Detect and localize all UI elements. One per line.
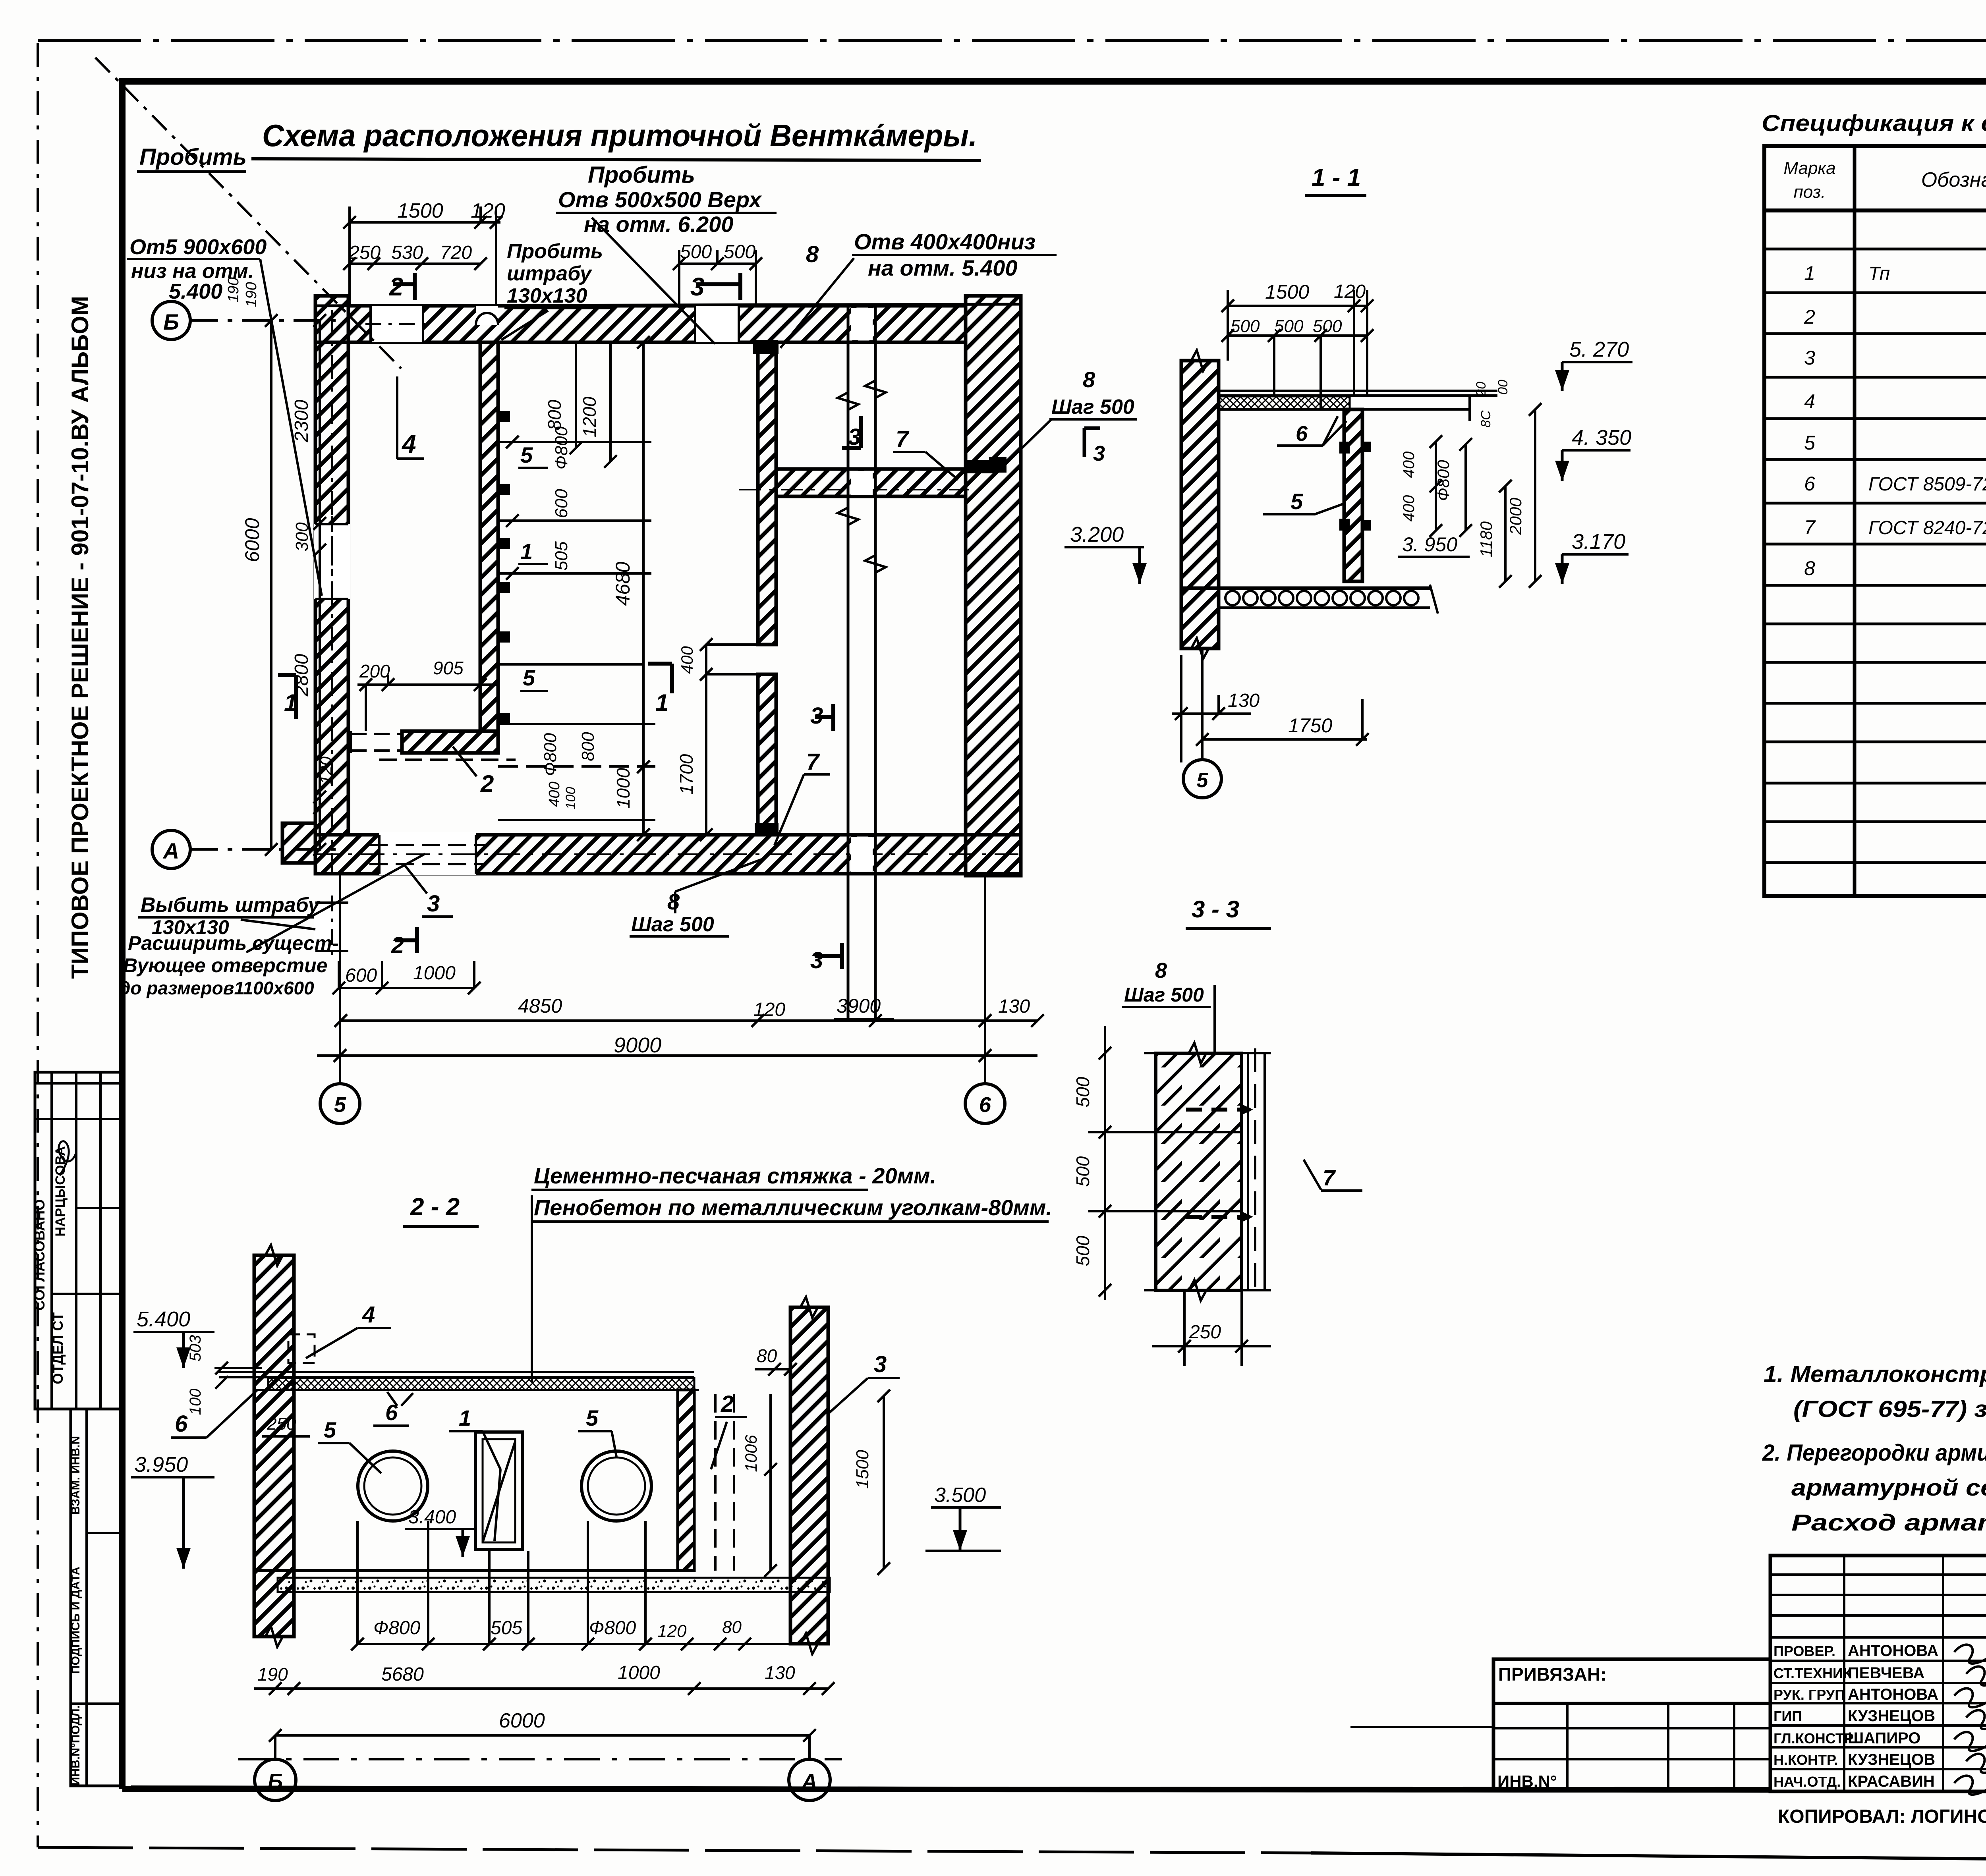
label vybit shtrabu [138, 894, 321, 938]
svg-text:720: 720 [440, 242, 472, 263]
svg-text:800: 800 [544, 400, 565, 430]
s11 level 5.270 [1555, 338, 1632, 391]
plan left wall lower opening (shtraba) [314, 896, 350, 957]
plan top wall band [315, 296, 1021, 342]
svg-text:500: 500 [724, 241, 755, 262]
section mark 3 top [690, 272, 740, 301]
svg-text:3: 3 [874, 1351, 887, 1377]
svg-text:190: 190 [243, 282, 260, 307]
s11 dim 130 [1172, 655, 1260, 762]
section mark 1 mid [648, 664, 672, 716]
svg-text:6: 6 [175, 1411, 188, 1437]
svg-text:1180: 1180 [1477, 521, 1495, 557]
dim 400 1700 [676, 638, 771, 841]
svg-text:1000: 1000 [413, 963, 456, 984]
svg-text:Ф800: Ф800 [589, 1617, 636, 1639]
svg-text:1500: 1500 [397, 199, 443, 222]
svg-text:5: 5 [520, 442, 533, 467]
s22 top slab [219, 1372, 699, 1390]
svg-text:3.200: 3.200 [1070, 523, 1124, 546]
s11 dims 400 400 F800 [1400, 435, 1472, 537]
svg-text:Пробить: Пробить [588, 162, 695, 188]
s33 dim 500x3 [1072, 1026, 1242, 1300]
svg-text:Обозначение: Обозначение [1921, 168, 1986, 191]
svg-text:500: 500 [1231, 317, 1260, 336]
svg-text:5.400: 5.400 [169, 280, 222, 303]
svg-text:ГОСТ 8509-72: ГОСТ 8509-72 [1868, 474, 1986, 495]
svg-text:Спецификация к схеме расположе: Спецификация к схеме расположения приточ… [1762, 110, 1986, 136]
svg-text:190: 190 [257, 1664, 288, 1685]
svg-text:От5 900х600: От5 900х600 [129, 235, 267, 259]
s11 level 3.170 [1555, 530, 1629, 584]
svg-text:6000: 6000 [499, 1709, 545, 1732]
s22 right outer wall [790, 1297, 828, 1654]
svg-text:3 - 3: 3 - 3 [1192, 896, 1239, 923]
svg-text:7: 7 [806, 749, 820, 775]
svg-text:190: 190 [225, 277, 242, 302]
s22 level 3.950 [131, 1453, 214, 1569]
plan left wall [315, 342, 348, 835]
svg-text:ВЗАМ. ИНВ.N: ВЗАМ. ИНВ.N [69, 1436, 82, 1515]
svg-text:Выбить штрабу: Выбить штрабу [141, 894, 321, 917]
svg-text:400: 400 [678, 646, 696, 674]
svg-text:8: 8 [1083, 367, 1095, 392]
svg-text:3: 3 [810, 948, 823, 973]
svg-text:3: 3 [690, 272, 705, 301]
svg-text:АНТОНОВА: АНТОНОВА [1848, 1642, 1938, 1660]
svg-text:ИНВ.N°ПОДЛ.: ИНВ.N°ПОДЛ. [69, 1705, 82, 1785]
svg-text:80: 80 [757, 1345, 777, 1366]
svg-text:300: 300 [292, 522, 312, 552]
section 1-1 title [1305, 164, 1366, 195]
sidebar vertical project label [67, 296, 93, 979]
spec table contents [1804, 223, 1986, 621]
svg-text:2: 2 [389, 272, 404, 301]
s33 dim 250 [1152, 1290, 1271, 1366]
s22 axis line [238, 1758, 842, 1760]
s22 label 5 first [318, 1417, 381, 1473]
plan partition room4 embeds [498, 411, 510, 724]
svg-text:3900: 3900 [837, 995, 881, 1017]
svg-text:Схема расположения приточной: Схема расположения приточной Вентка́меры… [262, 118, 977, 153]
s11 label 5 [1263, 489, 1344, 514]
svg-text:503: 503 [187, 1335, 204, 1362]
svg-text:3: 3 [1804, 347, 1815, 369]
s22 level 3.500 [925, 1484, 1001, 1551]
svg-text:НАЧ.ОТД.: НАЧ.ОТД. [1773, 1774, 1841, 1790]
svg-text:5: 5 [1804, 432, 1815, 454]
svg-text:1750: 1750 [1288, 714, 1332, 737]
notes text [1762, 1361, 1986, 1536]
svg-text:505: 505 [491, 1617, 522, 1639]
svg-text:6: 6 [1804, 473, 1815, 495]
s33 label 8 shag 500 [1122, 959, 1215, 1053]
s11 level 4.350 [1555, 426, 1631, 481]
svg-text:5: 5 [334, 1093, 346, 1117]
svg-text:Цементно-песчаная стяжка - 20м: Цементно-песчаная стяжка - 20мм. [534, 1163, 936, 1188]
svg-text:на отм. 5.400: на отм. 5.400 [868, 255, 1017, 280]
svg-text:1. Металлоконструкции окрасить: 1. Металлоконструкции окрасить масляной … [1764, 1361, 1986, 1387]
svg-text:ОТДЕЛ СТ: ОТДЕЛ СТ [50, 1312, 66, 1384]
svg-text:400: 400 [1400, 452, 1418, 478]
svg-text:3.500: 3.500 [934, 1484, 986, 1507]
label 4 room [397, 376, 424, 459]
svg-text:120: 120 [1334, 281, 1366, 302]
svg-text:штрабу: штрабу [507, 262, 593, 285]
svg-text:5: 5 [324, 1417, 336, 1442]
s11 left wall [1181, 350, 1219, 659]
dim 6000 left [241, 314, 278, 856]
s22 circle opening 1 [357, 1451, 428, 1521]
svg-text:7: 7 [1323, 1165, 1336, 1190]
svg-text:400: 400 [1400, 495, 1418, 522]
svg-text:ГЛ.КОНСТР: ГЛ.КОНСТР [1773, 1730, 1854, 1747]
plan partition room4 horizontal [351, 731, 516, 760]
svg-text:Отв 500х500 Верх: Отв 500х500 Верх [558, 187, 763, 212]
s22 note styazhka [531, 1163, 1052, 1382]
frame bottom extension [131, 1788, 1493, 1790]
svg-text:5: 5 [1197, 769, 1209, 792]
svg-text:2: 2 [721, 1391, 734, 1417]
svg-text:250: 250 [1189, 1322, 1221, 1343]
label Otv 400x400 niz na otm 5.400 [780, 229, 1057, 348]
plan bottom wall band [315, 835, 1021, 874]
svg-text:5: 5 [523, 665, 535, 690]
svg-text:500: 500 [1313, 317, 1342, 336]
s22 label 2 [711, 1391, 747, 1469]
svg-text:Вующее отверстие: Вующее отверстие [123, 954, 327, 977]
svg-text:4850: 4850 [518, 995, 562, 1017]
section mark 2 bottom [391, 927, 417, 958]
s11 dim 1500 120 [1221, 281, 1374, 396]
plan top wall embed 7 (black) [753, 340, 778, 354]
svg-text:Марка: Марка [1783, 158, 1835, 178]
s22 dims row2 [254, 1662, 835, 1695]
privyazan table [1493, 1659, 1770, 1790]
svg-text:Шаг 500: Шаг 500 [1051, 396, 1134, 419]
main title [251, 118, 981, 160]
s22 dim 1500 [853, 1390, 890, 1575]
axis 6 circle plan [965, 874, 1005, 1123]
sidebar lower table (Инв/Подпись/Взам) [71, 1409, 122, 1786]
svg-text:500: 500 [1072, 1235, 1093, 1266]
section 3-3 title [1186, 896, 1271, 928]
signature table names [1773, 1642, 1938, 1790]
plan shaft line right [865, 306, 886, 1021]
svg-text:(ГОСТ 695-77) за 2 раза.: (ГОСТ 695-77) за 2 раза. [1793, 1396, 1986, 1422]
svg-text:2: 2 [1804, 306, 1815, 328]
svg-text:4. 350: 4. 350 [1572, 426, 1631, 450]
svg-text:1000: 1000 [618, 1662, 660, 1683]
dim 1500/120 above plan [343, 199, 505, 306]
svg-text:400: 400 [546, 782, 563, 807]
s11 top slab [1219, 391, 1497, 421]
s22 dim 1006 [742, 1394, 777, 1577]
svg-text:500: 500 [1072, 1077, 1093, 1107]
svg-text:ПОДПИСЬ И ДАТА: ПОДПИСЬ И ДАТА [69, 1567, 82, 1674]
s22 center opening [475, 1432, 522, 1550]
sidebar label Взам инв [69, 1436, 82, 1515]
svg-text:ПРОВЕР.: ПРОВЕР. [1773, 1643, 1835, 1659]
svg-text:СОГЛАСОВАНО: СОГЛАСОВАНО [31, 1199, 48, 1310]
section mark 1 left [278, 675, 297, 719]
spec table grid [1764, 146, 1986, 896]
svg-text:3. 950: 3. 950 [1402, 533, 1457, 556]
s11 dim 500x3 [1221, 317, 1374, 409]
sidebar label Нарцысова [53, 1146, 68, 1236]
label 8 shag500 bottom [630, 858, 766, 936]
section mark 3 lower [810, 943, 842, 973]
svg-text:Н.КОНТР.: Н.КОНТР. [1773, 1752, 1838, 1768]
section mark 3 right [1084, 428, 1105, 465]
svg-text:5: 5 [1291, 489, 1303, 514]
svg-text:8: 8 [1155, 959, 1167, 982]
svg-text:8: 8 [806, 241, 819, 267]
section 2-2 title [403, 1193, 479, 1226]
label 2 partition [453, 747, 494, 797]
s22 dim 6000 [269, 1709, 816, 1742]
plan right-room horizontal wall [739, 469, 969, 496]
s22 level 5.400 [133, 1307, 262, 1415]
svg-text:7: 7 [1804, 516, 1816, 538]
label 5 lower [520, 665, 548, 691]
svg-text:130х130: 130х130 [507, 284, 587, 307]
plan shaft line left [838, 306, 858, 1021]
svg-text:20: 20 [1474, 382, 1489, 397]
plan top wall opening (probit) [365, 306, 429, 342]
plan top wall opening 500x500 [695, 306, 739, 342]
plan left wall centerline [331, 310, 333, 872]
svg-text:250: 250 [267, 1414, 296, 1434]
svg-text:600: 600 [552, 489, 571, 518]
svg-text:КРАСАВИН: КРАСАВИН [1848, 1773, 1935, 1790]
svg-text:800: 800 [578, 732, 598, 761]
svg-text:2 - 2: 2 - 2 [410, 1193, 460, 1221]
s22 circle opening 2 [581, 1451, 651, 1521]
label 5 upper [518, 442, 548, 468]
svg-text:Тп: Тп [1868, 263, 1890, 284]
svg-text:2300: 2300 [291, 400, 312, 442]
s11 floor slab [1181, 585, 1438, 614]
svg-text:1: 1 [1804, 262, 1815, 284]
label 7 upper-right [893, 426, 958, 480]
signature table grid [1770, 1556, 1986, 1791]
plan partition room4 vertical [480, 342, 498, 731]
signature squiggles [1954, 1644, 1986, 1795]
s11 level 3.950 [1398, 533, 1470, 557]
svg-text:120: 120 [657, 1621, 687, 1641]
svg-text:8: 8 [667, 889, 680, 914]
svg-text:2. Перегородки армировать чере: 2. Перегородки армировать через 6 рядов … [1762, 1440, 1986, 1466]
label Probit (top-left) [95, 58, 401, 369]
dim 250 530 720 [343, 242, 487, 270]
svg-text:1500: 1500 [853, 1450, 872, 1489]
label Ot5 900x600 [127, 235, 322, 596]
svg-text:НАРЦЫСОВА: НАРЦЫСОВА [53, 1146, 68, 1236]
axis B circle [152, 301, 348, 340]
svg-text:ПРИВЯЗАН:: ПРИВЯЗАН: [1498, 1664, 1607, 1685]
svg-text:120: 120 [753, 999, 785, 1020]
plan bottom band centerline [315, 853, 1021, 855]
svg-text:500: 500 [1274, 317, 1304, 336]
section mark 3 mid [810, 703, 833, 731]
svg-text:Б: Б [163, 309, 179, 334]
svg-text:ИНВ.N°: ИНВ.N° [1497, 1772, 1557, 1791]
svg-text:5.400: 5.400 [137, 1307, 190, 1331]
svg-text:4: 4 [362, 1302, 375, 1328]
s22 floor [254, 1571, 830, 1592]
svg-text:6000: 6000 [241, 518, 263, 562]
dim 500 500 (otv) [673, 241, 762, 306]
s22 label 1 [449, 1405, 500, 1541]
svg-text:ПЕВЧЕВА: ПЕВЧЕВА [1848, 1664, 1924, 1682]
sidebar label Согласовано [31, 1199, 48, 1310]
plan top wall shtraba notch [476, 306, 498, 325]
section mark 3 pair upper [842, 416, 861, 450]
sidebar label Отдел СТ [50, 1312, 66, 1384]
s33 wall [1156, 1043, 1242, 1301]
svg-text:80: 80 [722, 1617, 742, 1637]
svg-text:905: 905 [433, 658, 464, 678]
s22 dashed partition [715, 1394, 734, 1571]
svg-text:100: 100 [187, 1389, 204, 1415]
spec table header [1783, 158, 1986, 202]
svg-text:1: 1 [459, 1405, 471, 1430]
plan left wall door opening [314, 516, 350, 608]
svg-text:А: А [162, 838, 179, 863]
plan right wall embed [966, 457, 1007, 473]
svg-text:5: 5 [586, 1405, 599, 1430]
s22 label 5 second [578, 1405, 616, 1457]
svg-text:5680: 5680 [381, 1664, 424, 1685]
svg-text:КУЗНЕЦОВ: КУЗНЕЦОВ [1848, 1751, 1935, 1768]
privyazan label [1498, 1664, 1607, 1685]
partition dims lower 0800/800/400/100 [498, 724, 655, 820]
s11 dims 1180 2000 [1474, 380, 1542, 588]
svg-text:120: 120 [317, 756, 335, 784]
svg-text:130: 130 [1228, 690, 1260, 711]
partition dims 0800/600/505 [498, 426, 651, 664]
svg-text:8: 8 [1804, 557, 1815, 579]
svg-text:ТИПОВОЕ ПРОЕКТНОЕ РЕШЕНИЕ -: ТИПОВОЕ ПРОЕКТНОЕ РЕШЕНИЕ - 901-07-10.ВУ… [67, 296, 93, 979]
svg-text:500: 500 [1072, 1156, 1093, 1187]
svg-text:ШАПИРО: ШАПИРО [1848, 1729, 1920, 1747]
svg-text:505: 505 [552, 541, 571, 571]
svg-text:100: 100 [563, 787, 578, 810]
s22 axis A [789, 1735, 830, 1801]
svg-text:4680: 4680 [612, 562, 634, 606]
svg-text:3.170: 3.170 [1572, 530, 1625, 554]
s22 chamber right wall [678, 1390, 694, 1571]
dim 600 1000 bottom [332, 961, 481, 994]
svg-text:Пенобетон по металлическим уго: Пенобетон по металлическим уголкам-80мм. [534, 1195, 1052, 1220]
s22 label 3 [828, 1351, 900, 1414]
sidebar signature squiggle [59, 1141, 76, 1175]
s22 axis B [255, 1735, 296, 1801]
s22 label 6 left [171, 1390, 257, 1438]
svg-text:Ф800: Ф800 [1434, 460, 1453, 501]
plan right wall [966, 296, 1021, 876]
svg-text:130: 130 [765, 1662, 795, 1683]
section mark 2 top [389, 272, 415, 301]
svg-text:1006: 1006 [742, 1435, 760, 1472]
svg-text:3: 3 [427, 891, 440, 917]
label Probit shtrabu 130x130 [501, 240, 612, 340]
svg-text:Ф800: Ф800 [373, 1617, 421, 1639]
svg-text:1 - 1: 1 - 1 [1312, 164, 1361, 191]
svg-text:9000: 9000 [614, 1033, 661, 1057]
kopiroval [1778, 1806, 1986, 1827]
s33 channel lines [1144, 1048, 1271, 1293]
label 8 shag500 right [1001, 367, 1137, 469]
svg-text:КОПИРОВАЛ: ЛОГИНОВА: КОПИРОВАЛ: ЛОГИНОВА [1778, 1806, 1986, 1827]
dim chain left 2300/300/2800/120 [291, 314, 335, 856]
s11 axis 5 [1183, 648, 1221, 798]
s11 dim 1750 [1196, 699, 1369, 746]
svg-text:ГОСТ 8240-72: ГОСТ 8240-72 [1868, 517, 1986, 538]
svg-text:1700: 1700 [676, 754, 697, 795]
svg-text:6: 6 [979, 1093, 991, 1117]
plan middle partition embeds [755, 341, 779, 836]
svg-text:3: 3 [1093, 442, 1105, 465]
s22 left wall [254, 1245, 294, 1647]
svg-text:530: 530 [391, 242, 423, 263]
svg-text:АНТОНОВА: АНТОНОВА [1848, 1686, 1938, 1703]
s33 embed dashes [1186, 1104, 1253, 1222]
axis 5 circle plan [320, 874, 360, 1123]
s22 label 6 slab [373, 1392, 413, 1426]
svg-text:7: 7 [896, 426, 910, 452]
svg-text:Шаг 500: Шаг 500 [631, 913, 714, 936]
plan shaft gap whitecover [851, 308, 873, 872]
dim 200 905 [357, 658, 496, 731]
s33 label 7 [1304, 1160, 1362, 1191]
inv number label [1497, 1772, 1557, 1791]
s11 level 3.200 [1064, 523, 1147, 584]
spec table title [1762, 110, 1986, 136]
plan middle partition wall [758, 342, 776, 835]
dim 800 1200 room4 [544, 342, 617, 468]
dim 4680 / 1000 [612, 336, 650, 841]
svg-text:1500: 1500 [1265, 281, 1309, 303]
svg-text:00: 00 [1495, 380, 1511, 395]
svg-text:ГИП: ГИП [1773, 1708, 1802, 1724]
dim 9000 [317, 1033, 1037, 1062]
svg-text:Шаг 500: Шаг 500 [1124, 984, 1204, 1006]
svg-text:2: 2 [480, 770, 494, 797]
s22 dim 3.400 [405, 1507, 477, 1557]
svg-text:Ф800: Ф800 [541, 733, 560, 776]
svg-text:СТ.ТЕХНИК: СТ.ТЕХНИК [1773, 1665, 1852, 1681]
svg-text:РУК. ГРУП: РУК. ГРУП [1773, 1687, 1845, 1703]
svg-text:Ф800: Ф800 [552, 426, 571, 469]
svg-text:1200: 1200 [579, 396, 600, 437]
s22 dims row1 [351, 1521, 828, 1650]
svg-text:1: 1 [520, 539, 533, 564]
label 8 top [806, 241, 819, 267]
svg-text:КУЗНЕЦОВ: КУЗНЕЦОВ [1848, 1707, 1935, 1725]
sidebar label Подпись и дата [69, 1567, 82, 1674]
svg-text:5. 270: 5. 270 [1569, 338, 1629, 361]
label 1 mid [518, 539, 548, 564]
svg-text:1000: 1000 [613, 768, 634, 809]
label rasshirit [119, 854, 425, 998]
svg-text:8С: 8С [1478, 410, 1493, 428]
svg-text:4: 4 [1804, 390, 1815, 413]
sidebar upper table (Согласовано) [35, 1072, 122, 1409]
s22 dim 80 upper [755, 1345, 797, 1376]
s11 label 6 [1277, 416, 1347, 446]
